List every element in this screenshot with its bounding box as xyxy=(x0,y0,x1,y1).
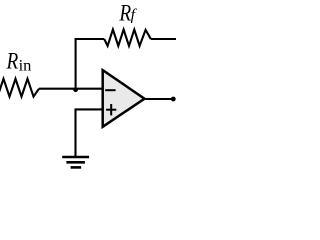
wire (feedback top right to edge) xyxy=(151,38,176,40)
wire (feedback top left) xyxy=(75,38,105,40)
svg-text:R: R xyxy=(6,48,19,73)
wire (feedback vertical) xyxy=(75,39,77,89)
svg-text:in: in xyxy=(19,57,32,74)
op-amp U1 xyxy=(103,70,145,127)
resistor Rf xyxy=(104,30,151,46)
wire (Rin to inverting input) xyxy=(39,88,103,90)
node A (inverting input junction) xyxy=(73,87,78,92)
resistor Rin xyxy=(0,79,39,97)
ground xyxy=(62,157,89,167)
wire (output) xyxy=(146,98,174,100)
node (output terminal) xyxy=(171,97,176,102)
op-amp U1 plus pin marker xyxy=(106,104,116,115)
op-amp U1 minus pin marker xyxy=(105,89,115,91)
wire (non-inverting input) xyxy=(76,109,104,156)
svg-text:R: R xyxy=(119,0,132,25)
